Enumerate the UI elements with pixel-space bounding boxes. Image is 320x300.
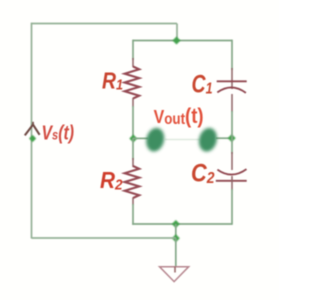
wire: bottom rail <box>132 223 232 225</box>
junction vout left <box>129 135 137 143</box>
wire: R1 to vout node <box>132 106 134 139</box>
wire: source bottom rail <box>32 237 177 239</box>
junction node A <box>173 37 181 45</box>
wire: bottom rail to ground node <box>175 224 177 238</box>
svg-text:Vs(t): Vs(t) <box>42 123 75 145</box>
wire: C1 top lead (green) <box>231 40 233 70</box>
wire: C1 to vout node <box>231 111 233 139</box>
wire: C2 to bottom rail <box>231 189 233 225</box>
voltage source VS arrow <box>25 122 40 136</box>
junction ground node <box>172 234 180 242</box>
junction bottom rail <box>172 220 180 228</box>
wire: vout rail right stub <box>216 137 232 139</box>
svg-text:C2: C2 <box>191 160 215 188</box>
wire: top rail node A <box>133 40 232 42</box>
wire: vout to C2 (green) <box>231 138 233 154</box>
wire: R2 to bottom rail <box>132 204 134 225</box>
svg-text:R2: R2 <box>100 167 123 194</box>
wire: R1 top lead (green) <box>132 40 134 60</box>
wire: vout rail faint middle <box>165 139 200 141</box>
capacitor C2 <box>216 152 247 190</box>
resistor R1 <box>125 58 140 107</box>
wire: outer top rail <box>32 23 178 25</box>
resistor R2 <box>125 158 140 205</box>
junction vout right <box>228 134 236 142</box>
wire: drop from outer top to node A <box>176 24 178 41</box>
wire: ground stub <box>175 238 177 267</box>
node annotation: green blob left on vout net <box>144 126 167 154</box>
svg-text:C1: C1 <box>192 71 213 99</box>
wire: vout to R2 <box>132 138 134 160</box>
wire: outer left rail <box>31 23 33 239</box>
node annotation: green blob right on vout net <box>196 126 219 154</box>
capacitor C1 <box>217 68 247 112</box>
svg-text:Vout(t): Vout(t) <box>154 104 204 128</box>
svg-text:R1: R1 <box>102 68 123 94</box>
junction source node <box>29 135 36 142</box>
ground <box>160 267 189 282</box>
wire: vout rail left stub <box>133 137 148 139</box>
